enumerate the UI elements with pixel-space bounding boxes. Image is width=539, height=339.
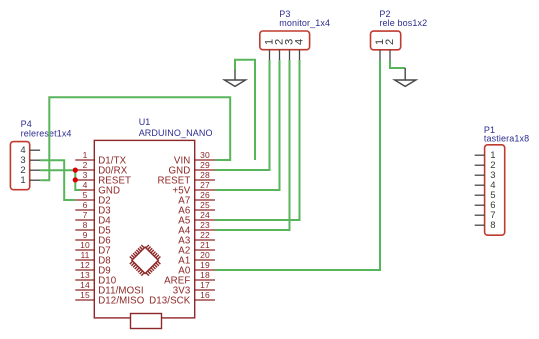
- svg-text:14: 14: [80, 280, 90, 290]
- svg-text:D12/MISO: D12/MISO: [98, 295, 145, 306]
- svg-text:4: 4: [83, 180, 88, 190]
- U1 chip pictogram (diamond IC): [130, 245, 161, 276]
- P4 pin 1: [20, 175, 40, 186]
- U1 pin 11 D8: [75, 250, 111, 266]
- svg-text:1: 1: [83, 150, 88, 160]
- U1 pin 18 AREF: [164, 270, 215, 286]
- wire net RX: P4.2 to U1 pin2 D0/RX: [40, 169, 75, 171]
- U1 pin 19 A0: [178, 260, 215, 276]
- P1 pin 8: [475, 220, 496, 231]
- P3 refdes label: [279, 9, 290, 19]
- U1 USB connector rectangle: [131, 314, 162, 329]
- U1 pin 28 RESET: [157, 170, 215, 186]
- svg-text:P4: P4: [21, 119, 32, 129]
- wire net +5V: P3.2 to U1 pin27: [215, 60, 280, 190]
- svg-text:22: 22: [200, 230, 210, 240]
- P3 pin 3: [284, 39, 296, 60]
- U1 pin 16 D13/SCK: [149, 290, 215, 306]
- U1 pin 12 D9: [75, 260, 111, 276]
- svg-text:rele bos1x2: rele bos1x2: [379, 18, 427, 28]
- svg-text:24: 24: [200, 210, 210, 220]
- svg-text:10: 10: [80, 240, 90, 250]
- svg-text:5: 5: [83, 190, 88, 200]
- svg-text:1: 1: [20, 175, 25, 186]
- P1 pin 5: [475, 190, 496, 201]
- U1 pin 17 3V3: [173, 280, 215, 296]
- connector P2 body: [371, 31, 401, 50]
- U1 pin 29 GND: [169, 160, 215, 176]
- wire net SCL: P3.4 to U1 pin24 A5: [215, 60, 300, 220]
- svg-text:D13/SCK: D13/SCK: [149, 295, 191, 306]
- svg-text:20: 20: [200, 250, 210, 260]
- svg-text:2: 2: [384, 39, 396, 45]
- U1 pin 4 GND: [75, 180, 120, 196]
- P3 pin 2: [274, 39, 286, 60]
- wire net SDA: P3.3 to U1 pin23 A4: [215, 60, 290, 230]
- P3 value label monitor_1x4: [279, 18, 330, 28]
- svg-text:monitor_1x4: monitor_1x4: [279, 18, 330, 28]
- U1 pin 8 D5: [75, 220, 111, 236]
- svg-text:29: 29: [200, 160, 210, 170]
- svg-text:7: 7: [83, 210, 88, 220]
- P1 pin 1: [475, 150, 496, 161]
- U1 pin 7 D4: [75, 210, 111, 226]
- U1 pin 27 +5V: [173, 180, 215, 196]
- P1 pin 6: [475, 200, 496, 211]
- wire net GND stub near P3 (dangling): [235, 60, 255, 160]
- U1 pin 13 D10: [75, 270, 117, 286]
- connector P3 body: [260, 31, 310, 50]
- P4 pin 3: [20, 155, 40, 166]
- svg-text:19: 19: [200, 260, 210, 270]
- svg-text:U1: U1: [139, 117, 151, 127]
- svg-text:11: 11: [80, 250, 89, 260]
- svg-text:8: 8: [490, 220, 495, 231]
- P1 value label tastiera1x8: [484, 134, 529, 144]
- U1 pin 20 A1: [178, 250, 215, 266]
- wire net D2: P4.3 to U1 pin5: [40, 160, 75, 200]
- U1 pin 6 D3: [75, 200, 111, 216]
- svg-text:relereset1x4: relereset1x4: [21, 129, 72, 139]
- svg-text:2: 2: [83, 160, 88, 170]
- U1 pin 26 A7: [178, 190, 215, 206]
- IC U1 ARDUINO_NANO body: [94, 140, 194, 318]
- svg-text:ARDUINO_NANO: ARDUINO_NANO: [139, 128, 213, 138]
- P4 pin 4: [20, 145, 40, 156]
- U1 pin 2 D0/RX: [75, 160, 127, 176]
- P4 refdes label: [21, 119, 32, 129]
- svg-text:30: 30: [200, 150, 210, 160]
- svg-text:13: 13: [80, 270, 90, 280]
- P3 pin 4: [294, 39, 306, 60]
- svg-text:3: 3: [83, 170, 88, 180]
- ground GND2 (near P2): [395, 68, 416, 86]
- connector P4 body: [10, 142, 29, 190]
- U1 pin 25 A6: [178, 200, 215, 216]
- P4 value label relereset1x4: [21, 129, 72, 139]
- U1 pin 22 A3: [178, 230, 215, 246]
- P2 pin 1: [374, 39, 386, 60]
- wire net tie U1 pin2-pin3-pin4: [75, 169, 80, 190]
- P3 pin 1: [264, 39, 276, 60]
- svg-text:15: 15: [80, 290, 90, 300]
- U1 pin 14 D11/MOSI: [75, 280, 143, 296]
- svg-text:6: 6: [83, 200, 88, 210]
- svg-text:23: 23: [200, 220, 210, 230]
- svg-text:18: 18: [200, 270, 210, 280]
- P4 pin 2: [20, 165, 40, 176]
- U1 pin 23 A4: [178, 220, 215, 236]
- svg-text:9: 9: [83, 230, 88, 240]
- svg-text:17: 17: [200, 280, 210, 290]
- U1 refdes label: [139, 117, 151, 127]
- U1 pin 21 A2: [178, 240, 215, 256]
- U1 pin 10 D7: [75, 240, 111, 256]
- svg-text:21: 21: [200, 240, 210, 250]
- ground GND1 (near P3): [224, 70, 245, 87]
- wire net GND: P3.1 to U1 pin29: [215, 60, 270, 170]
- U1 pin 30 VIN: [174, 150, 215, 166]
- U1 pin 3 RESET: [75, 170, 131, 186]
- svg-text:27: 27: [200, 180, 210, 190]
- P1 pin 3: [475, 170, 496, 181]
- U1 pin 5 D2: [75, 190, 111, 206]
- P2 pin 2: [384, 39, 396, 60]
- svg-text:tastiera1x8: tastiera1x8: [484, 134, 529, 144]
- svg-text:25: 25: [200, 200, 210, 210]
- svg-text:26: 26: [200, 190, 210, 200]
- svg-text:16: 16: [200, 290, 210, 300]
- svg-text:8: 8: [83, 220, 88, 230]
- junction at U1 pin3 RESET: [73, 177, 78, 182]
- svg-text:28: 28: [200, 170, 210, 180]
- connector P1 body: [485, 145, 505, 235]
- P1 refdes label: [484, 125, 495, 135]
- U1 pin 9 D6: [75, 230, 111, 246]
- P1 pin 7: [475, 210, 496, 221]
- wire net GND: P2.2 to ground: [390, 60, 405, 68]
- U1 pin 24 A5: [178, 210, 215, 226]
- P2 refdes label: [379, 9, 390, 19]
- wire net VIN: P4.1 to U1 pin30: [40, 97, 230, 180]
- junction at U1 pin2 D0/RX: [73, 168, 78, 173]
- U1 pin 1 D1/TX: [75, 150, 126, 166]
- U1 value label ARDUINO_NANO: [139, 128, 213, 138]
- P1 pin 4: [475, 180, 496, 191]
- P1 pin 2: [475, 160, 496, 171]
- svg-text:12: 12: [80, 260, 90, 270]
- P2 value label rele bos1x2: [379, 18, 427, 28]
- U1 pin 15 D12/MISO: [75, 290, 144, 306]
- svg-text:4: 4: [294, 39, 306, 45]
- wire net A0: P2.1 to U1 pin19: [215, 60, 380, 270]
